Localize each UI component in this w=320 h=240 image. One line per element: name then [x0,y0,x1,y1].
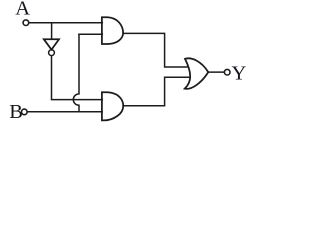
wire top AND input 2 stub [79,33,102,35]
bottom AND gate U3 [102,92,123,120]
wire A horizontal to top AND input 1 [29,22,102,24]
top AND gate U2 [102,17,123,44]
wire inverter output down and right to bottom AND input 1 [52,56,103,100]
node Y terminal [224,69,230,75]
node A terminal [23,20,29,26]
OR gate U4 [185,58,209,89]
wire bottom AND output right and up to OR input 2 [123,77,190,106]
svg-text:A: A [15,0,30,20]
wire B horizontal to bottom AND input 2 [28,111,103,113]
inverter U1 bubble [49,50,55,56]
wire OR output to Y terminal [208,71,224,73]
svg-text:Y: Y [232,63,247,85]
inverter U1 triangle [44,39,59,49]
wire B branch vertical with hop over A' line [73,34,79,111]
node B terminal [22,109,28,115]
wire top AND output right and down to OR input 1 [123,33,188,67]
wire inverter drop from A line [51,23,53,39]
